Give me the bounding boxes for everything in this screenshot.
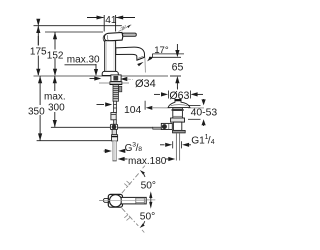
svg-text:G1: G1 xyxy=(191,135,205,146)
dimension 41 top xyxy=(87,15,135,32)
G1 1/4 dimension ticks and arrows xyxy=(172,141,174,148)
connector box xyxy=(111,113,116,120)
waste axis tick xyxy=(177,88,179,90)
ref line 350 bottom xyxy=(37,140,112,142)
dimension 40-53 xyxy=(188,104,201,106)
svg-text:152: 152 xyxy=(47,50,64,61)
faucet body xyxy=(105,41,116,72)
side socket xyxy=(161,123,172,129)
basin line with left arrow xyxy=(144,101,146,110)
ref line max300 bottom xyxy=(51,126,153,128)
swing double arrow xyxy=(150,194,152,207)
tiny arrow at raised lever xyxy=(127,25,130,28)
svg-text:8: 8 xyxy=(138,146,142,153)
tailpiece flange xyxy=(173,130,186,133)
65 ref line (mouth level) xyxy=(149,56,181,58)
pop-up waste flange xyxy=(168,100,190,108)
svg-text:41: 41 xyxy=(105,15,117,26)
coupling at max300 level xyxy=(110,124,117,129)
below-deck mounting bracket xyxy=(111,75,121,82)
segment under coupling xyxy=(112,130,117,135)
dimension 350 left xyxy=(39,76,41,141)
deck underside line xyxy=(99,82,129,84)
svg-text:65: 65 xyxy=(172,62,184,74)
dashed ray -50deg xyxy=(122,208,139,226)
hose upper segment xyxy=(114,101,117,112)
deck line xyxy=(34,75,169,77)
svg-text:350: 350 xyxy=(28,106,45,117)
side clamp piece xyxy=(119,86,122,92)
threaded rod xyxy=(113,85,119,101)
svg-text:max.180: max.180 xyxy=(128,156,167,167)
lever cap dome edge xyxy=(103,34,107,43)
17 deg construction: horizontal ref xyxy=(152,53,184,55)
pop-up rod horizontal xyxy=(118,127,153,129)
dimension Ø63 xyxy=(154,93,160,95)
mounting hole arrows (Ø34) xyxy=(94,76,101,80)
deck tick under 65 dim xyxy=(170,75,181,77)
waste body lower xyxy=(173,122,181,130)
washer xyxy=(110,82,122,85)
svg-text:104: 104 xyxy=(124,105,142,116)
water arrow left xyxy=(137,62,143,66)
svg-text:50°: 50° xyxy=(140,211,155,222)
svg-text:300: 300 xyxy=(48,103,65,114)
hose tube xyxy=(113,141,116,161)
dashed ray +50deg xyxy=(122,173,139,193)
svg-text:17°: 17° xyxy=(154,45,169,56)
svg-text:max.30: max.30 xyxy=(67,55,100,66)
centerline through circle xyxy=(100,200,147,202)
17 deg slanted line with arrow to mouth xyxy=(151,54,153,57)
dimension 152 left xyxy=(54,32,56,76)
ref line 175 top (raised lever height) xyxy=(34,25,122,27)
spout xyxy=(116,47,145,60)
waste body xyxy=(173,108,183,118)
short rod xyxy=(113,120,116,125)
dimension 65 xyxy=(176,44,178,50)
dimension max.300 left xyxy=(54,76,56,127)
svg-text:max.: max. xyxy=(44,92,66,103)
spout axis line xyxy=(144,58,147,73)
lever bar top view xyxy=(121,197,146,204)
rotated lever ghost marks top xyxy=(124,184,128,187)
svg-text:Ø34: Ø34 xyxy=(135,78,156,90)
dimension 175 left xyxy=(37,26,39,76)
svg-text:50°: 50° xyxy=(141,181,156,192)
G3/8 arrows xyxy=(104,150,105,152)
arrowhead bottom ray xyxy=(140,223,145,228)
lever rod xyxy=(123,33,137,36)
svg-text:175: 175 xyxy=(30,47,47,58)
arrowhead top ray xyxy=(140,170,145,175)
faucet front view: lever raised dashed xyxy=(119,25,132,32)
drain tube xyxy=(175,133,177,161)
faucet base xyxy=(102,71,118,75)
svg-text:4: 4 xyxy=(211,139,215,146)
dimension 104 arrow xyxy=(97,104,105,106)
body square xyxy=(108,194,122,207)
spout stub left xyxy=(99,199,104,201)
G3/8 nut xyxy=(112,135,118,141)
spout mouth line xyxy=(137,57,145,60)
ref line 152 top (cap top) xyxy=(45,31,103,33)
locknut xyxy=(171,118,185,122)
max.180 dimension xyxy=(118,157,125,161)
faucet front view: lever cap xyxy=(104,33,122,41)
svg-text:40-53: 40-53 xyxy=(191,108,218,119)
rotated lever ghost marks bottom xyxy=(124,215,128,218)
svg-text:25°: 25° xyxy=(120,24,128,32)
cartridge circle xyxy=(110,195,122,207)
